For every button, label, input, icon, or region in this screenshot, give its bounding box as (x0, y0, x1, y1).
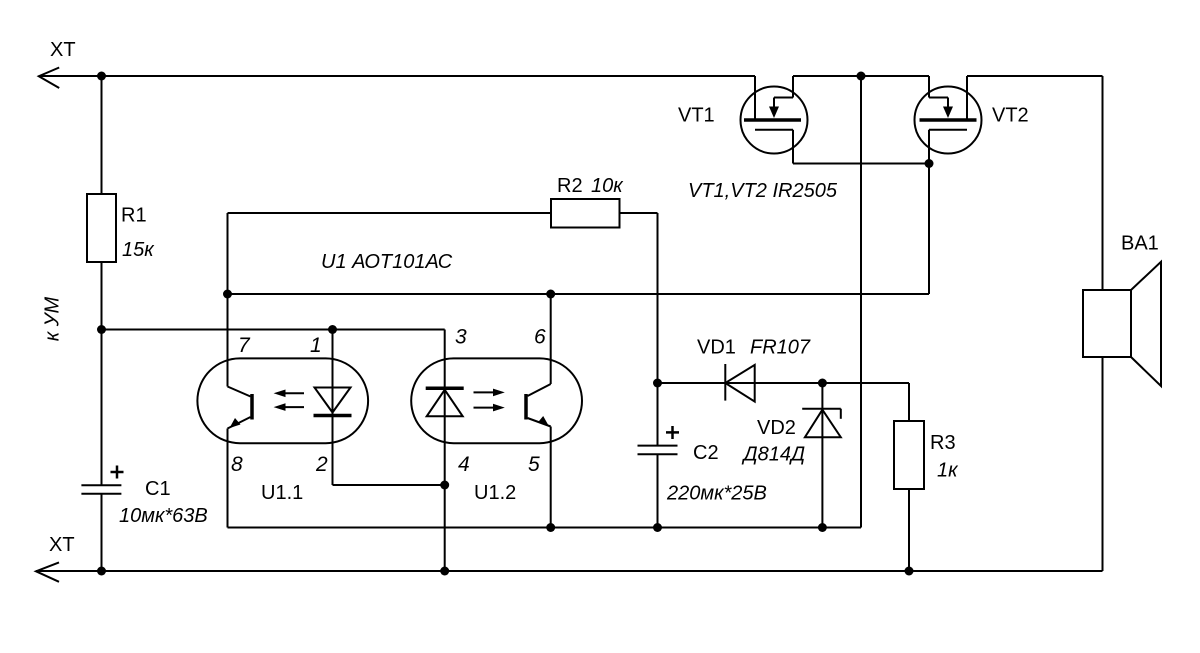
wire R2 left segment (228, 212, 552, 214)
diode VD1 (725, 364, 754, 402)
node gate bus junction (925, 159, 934, 168)
wire top bus middle segment (793, 75, 929, 77)
speaker BA1 (1083, 262, 1161, 386)
svg-text:R1: R1 (121, 205, 147, 227)
wire VT1 riser (792, 76, 794, 98)
svg-text:5: 5 (528, 453, 540, 476)
svg-text:R2: R2 (557, 175, 583, 197)
svg-text:VT1,VT2 IR2505: VT1,VT2 IR2505 (688, 180, 838, 202)
wire left column lower (C1 to XT bottom) (101, 495, 103, 572)
node pin 5 junction (546, 523, 555, 532)
optocoupler U1.2 LED (pin3-pin4) (426, 388, 464, 416)
svg-text:XT: XT (49, 534, 75, 556)
svg-text:VT1: VT1 (678, 105, 715, 127)
node pin 2-4 junction (440, 481, 449, 490)
wire C2 column upper (657, 213, 659, 446)
svg-text:10к: 10к (591, 175, 624, 197)
node VD1 cathode junction (818, 379, 827, 388)
wire VT1 gate drop (792, 130, 794, 164)
svg-text:C2: C2 (693, 442, 719, 464)
wire left column middle (R1 to C1) (101, 262, 103, 485)
transistor VT1 (741, 87, 808, 154)
wire right column lower (BA1 to bottom) (1102, 357, 1104, 571)
wire pin2 to pin4 link (333, 484, 445, 486)
resistor R1 (87, 194, 116, 262)
node C2 bottom junction (653, 523, 662, 532)
svg-text:6: 6 (534, 326, 546, 349)
wire left column upper (XT to R1) (101, 76, 103, 194)
wire VD1 horizontal (658, 382, 910, 384)
svg-text:3: 3 (455, 326, 467, 349)
wire U1 bottom bus (228, 527, 862, 529)
node R3 bottom junction (905, 567, 914, 576)
node VD1 anode junction (653, 379, 662, 388)
svg-text:8: 8 (231, 453, 243, 476)
optocoupler U1.2 phototransistor (526, 384, 551, 427)
svg-text:C1: C1 (145, 478, 171, 500)
wire pin 1-2 vertical (332, 330, 334, 486)
optocoupler U1.1 LED (pin1-pin2) (314, 388, 352, 416)
wire R3 column upper (908, 383, 910, 421)
svg-text:7: 7 (238, 334, 251, 357)
node mid bus left junction (223, 290, 232, 299)
svg-text:U1 АОТ101АС: U1 АОТ101АС (321, 251, 453, 273)
wire right column upper (to BA1) (1102, 76, 1104, 290)
capacitor C2 (638, 426, 680, 454)
wire VT2 drain lead (966, 76, 968, 119)
wire U1 left column (pin 7 riser) (227, 213, 229, 387)
wire C2 column lower (657, 455, 659, 528)
wire R2 right segment (620, 212, 658, 214)
svg-text:VD2: VD2 (757, 417, 796, 439)
svg-text:U1.2: U1.2 (474, 482, 516, 504)
svg-text:FR107: FR107 (750, 337, 811, 359)
svg-text:220мк*25В: 220мк*25В (666, 483, 767, 505)
wire top bus left segment (39, 75, 755, 77)
connector XT bottom arrow (36, 562, 59, 581)
wire VD2 column (821, 383, 823, 528)
svg-text:15к: 15к (122, 239, 155, 261)
wire drain bus column (860, 76, 862, 528)
svg-text:4: 4 (458, 453, 470, 476)
svg-text:U1.1: U1.1 (261, 482, 303, 504)
wire VT2 gate column (928, 130, 930, 294)
optocoupler U1.2 light arrows (474, 389, 505, 412)
wire XT bottom bus (36, 570, 1103, 572)
node pin 6 junction (546, 290, 555, 299)
zener diode VD2 (802, 409, 841, 438)
resistor R3 (894, 421, 924, 489)
node k UM junction (97, 325, 106, 334)
wire VT1 drain lead (754, 76, 756, 119)
svg-text:XT: XT (50, 39, 76, 61)
node drain bus top junction (857, 72, 866, 81)
wire k UM horizontal (102, 329, 445, 331)
wire mid bus horizontal (228, 293, 930, 295)
svg-text:1: 1 (310, 334, 322, 357)
wire pin 3-4 vertical (444, 330, 446, 572)
node pin 1 junction (328, 325, 337, 334)
svg-text:2: 2 (315, 453, 328, 476)
node XT bottom junction (97, 567, 106, 576)
svg-text:к УМ: к УМ (42, 296, 64, 341)
connector XT top arrow (39, 68, 59, 89)
resistor R2 (551, 199, 620, 228)
wire top bus right segment (967, 75, 1103, 77)
wire pin 5 vertical (550, 427, 552, 528)
transistor VT2 (915, 87, 982, 154)
svg-text:10мк*63В: 10мк*63В (119, 505, 208, 527)
svg-text:VT2: VT2 (992, 105, 1029, 127)
wire gate bus horizontal (793, 163, 929, 165)
wire R3 column lower (908, 489, 910, 571)
node XT top junction (97, 72, 106, 81)
node VD2 bottom junction (818, 523, 827, 532)
wire VT2 gate riser (928, 76, 930, 98)
svg-text:Д814Д: Д814Д (742, 444, 806, 466)
wire pin 6 vertical (550, 294, 552, 384)
wire pin 8 vertical (227, 429, 229, 528)
node pin 4 bottom junction (440, 567, 449, 576)
optocoupler U1.1 light arrows (274, 390, 304, 411)
svg-text:VD1: VD1 (697, 337, 736, 359)
optocoupler U1.1 body (197, 358, 368, 443)
svg-text:1к: 1к (937, 460, 959, 482)
svg-text:R3: R3 (930, 432, 956, 454)
capacitor C1 (81, 466, 123, 494)
optocoupler U1.2 body (411, 358, 582, 443)
optocoupler U1.1 phototransistor (228, 387, 253, 429)
svg-text:BA1: BA1 (1121, 233, 1159, 255)
